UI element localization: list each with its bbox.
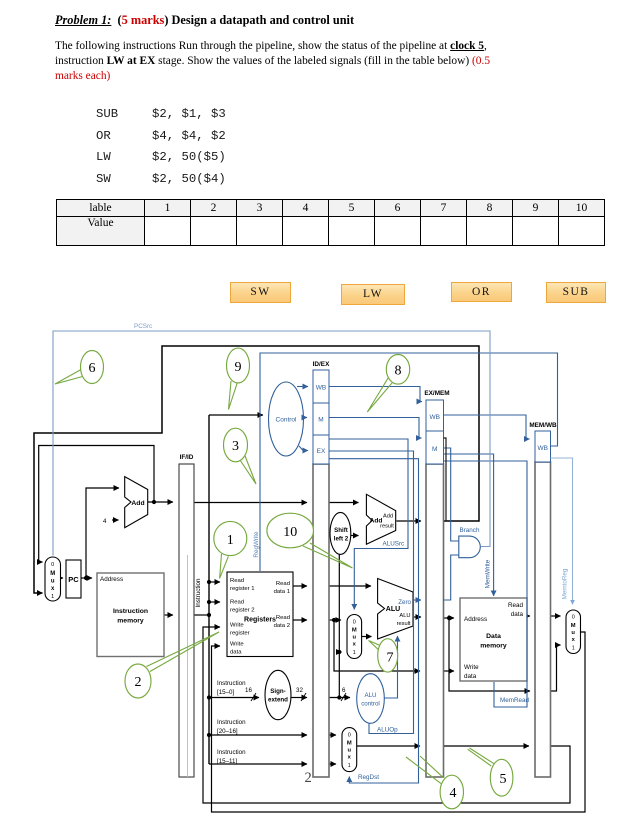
svg-text:5: 5 bbox=[500, 772, 507, 787]
bit-width slashes bbox=[251, 693, 346, 701]
wire PC+4 loop to PC mux input 0 bbox=[39, 446, 154, 563]
svg-text:ALU: ALU bbox=[386, 606, 400, 613]
svg-text:Instruction: Instruction bbox=[217, 749, 246, 756]
instruction tag LW bbox=[341, 284, 405, 305]
svg-text:u: u bbox=[353, 635, 357, 641]
wire write-back data to Registers Write data bbox=[212, 632, 586, 812]
svg-text:u: u bbox=[51, 579, 55, 585]
svg-text:EX: EX bbox=[317, 448, 326, 455]
svg-text:Instruction: Instruction bbox=[113, 608, 148, 615]
svg-text:3: 3 bbox=[232, 439, 239, 454]
svg-text:Add: Add bbox=[383, 514, 393, 520]
small numeric labels bbox=[103, 518, 346, 694]
wire MemRead control to data memory bbox=[444, 461, 528, 707]
svg-text:M: M bbox=[571, 623, 576, 629]
svg-text:Zero: Zero bbox=[398, 599, 411, 606]
callout 6 tail bbox=[55, 370, 83, 385]
wire RegWrite from MEM/WB to Registers bbox=[260, 353, 558, 571]
svg-text:memory: memory bbox=[117, 618, 144, 625]
svg-text:RegWrite: RegWrite bbox=[253, 531, 260, 558]
ID/EX pipeline register bbox=[313, 361, 330, 777]
svg-text:Read: Read bbox=[508, 602, 524, 609]
svg-text:data: data bbox=[511, 611, 524, 618]
wire Sign-extend output into ID/EX bbox=[291, 697, 307, 699]
wire ALU result bypass under Data memory into MEM/WB bbox=[449, 618, 530, 691]
wire PC+4 from ID/EX to branch Add bbox=[329, 502, 359, 504]
svg-text:PCSrc: PCSrc bbox=[134, 323, 152, 330]
svg-text:data 2: data 2 bbox=[274, 623, 290, 629]
junction dots bbox=[84, 500, 451, 737]
wire Zero flag into EX/MEM bbox=[413, 599, 421, 601]
svg-text:1: 1 bbox=[227, 533, 234, 548]
svg-text:8: 8 bbox=[395, 364, 402, 379]
wire instruction to Read register 2 bbox=[209, 601, 220, 603]
branch AND gate bbox=[459, 536, 481, 558]
wire instruction 15-0 to Sign-extend bbox=[209, 697, 259, 699]
svg-text:Read: Read bbox=[230, 578, 244, 584]
callout 1 bbox=[214, 521, 247, 555]
callout 9 bbox=[227, 348, 250, 383]
svg-text:Address: Address bbox=[464, 616, 487, 623]
svg-text:result: result bbox=[380, 524, 394, 530]
light blue labels bbox=[134, 323, 152, 330]
wire instruction memory output into IF/ID bbox=[164, 614, 173, 616]
svg-text:M: M bbox=[50, 571, 55, 577]
instruction memory bbox=[97, 573, 164, 657]
instruction field labels bbox=[217, 680, 246, 765]
paragraph bbox=[55, 39, 490, 84]
wire Read data 1 into ID/EX bbox=[293, 585, 307, 587]
svg-text:Write: Write bbox=[230, 642, 244, 648]
svg-text:WB: WB bbox=[537, 445, 547, 452]
wire Control to ID/EX WB bbox=[297, 386, 308, 388]
svg-text:9: 9 bbox=[235, 360, 242, 375]
svg-text:0: 0 bbox=[572, 615, 575, 621]
instruction listing bbox=[95, 106, 97, 108]
callout 7 tail bbox=[369, 641, 381, 652]
registers file bbox=[227, 572, 293, 657]
svg-text:Instruction: Instruction bbox=[195, 578, 202, 608]
shift left 2 bbox=[330, 512, 351, 554]
svg-text:[15–11]: [15–11] bbox=[217, 758, 237, 765]
MemtoReg mux bbox=[566, 610, 581, 654]
PC register bbox=[66, 560, 81, 598]
wire instruction 15-11 into ID/EX bbox=[209, 763, 307, 765]
callout 2 bbox=[125, 664, 151, 698]
wire MemtoReg from MEM/WB to mux select bbox=[551, 458, 573, 605]
svg-text:Write: Write bbox=[464, 664, 479, 671]
svg-text:0: 0 bbox=[51, 562, 54, 568]
wire Add result into EX/MEM bbox=[397, 520, 422, 522]
svg-text:Data: Data bbox=[486, 633, 501, 640]
blue signal labels bbox=[358, 527, 530, 781]
svg-text:1: 1 bbox=[51, 594, 54, 600]
svg-text:MEM/WB: MEM/WB bbox=[529, 422, 557, 429]
wire instruction to Control bbox=[209, 414, 263, 416]
svg-text:2: 2 bbox=[305, 770, 312, 786]
callout 1 tail bbox=[220, 554, 229, 578]
svg-text:ALU: ALU bbox=[364, 692, 376, 699]
callout 5 tail bbox=[468, 748, 494, 766]
wire immediate from ID/EX to ALU control bbox=[329, 697, 350, 699]
RegDst mux bbox=[342, 728, 357, 772]
svg-text:[20–16]: [20–16] bbox=[217, 728, 238, 735]
svg-text:data 1: data 1 bbox=[274, 589, 290, 595]
wire ALUSrc mux output to ALU bbox=[362, 636, 372, 638]
wire Read data into MEM/WB bbox=[527, 615, 530, 617]
green callouts bbox=[55, 370, 494, 784]
wire write register number back to Registers bbox=[203, 627, 570, 803]
svg-text:4: 4 bbox=[103, 518, 107, 525]
svg-text:RegDst: RegDst bbox=[358, 774, 379, 781]
wire RegDst mux output toward EX/MEM bbox=[357, 745, 420, 747]
svg-text:u: u bbox=[348, 748, 352, 754]
callout 7 bbox=[378, 639, 398, 672]
svg-text:result: result bbox=[397, 621, 411, 627]
wire write register number through MEM stage bbox=[444, 745, 530, 747]
svg-text:32: 32 bbox=[296, 687, 303, 694]
ALU control unit bbox=[357, 674, 385, 724]
callout 4 bbox=[440, 775, 463, 809]
wire Control to ID/EX M bbox=[304, 417, 308, 419]
svg-text:register: register bbox=[230, 631, 250, 637]
svg-text:PC: PC bbox=[68, 575, 79, 584]
svg-text:Write: Write bbox=[230, 623, 244, 629]
wire ALUOp control bbox=[329, 451, 414, 734]
svg-text:M: M bbox=[432, 446, 437, 453]
ALU bbox=[378, 579, 413, 640]
wire PC+4 from IF/ID into ID/EX bbox=[194, 502, 307, 504]
wire WB control ID/EX to EX/MEM bbox=[329, 387, 422, 402]
wire MemWrite control to data memory bbox=[444, 454, 494, 596]
wire immediate up to Shift left 2 bbox=[338, 555, 340, 698]
svg-text:0: 0 bbox=[353, 620, 356, 626]
wire M control ID/EX to EX/MEM bbox=[329, 418, 422, 439]
svg-text:register 2: register 2 bbox=[230, 608, 255, 614]
callout 4 tails bbox=[406, 756, 443, 784]
instruction tag OR bbox=[451, 282, 512, 302]
wire Branch control to AND gate bbox=[444, 448, 460, 541]
svg-text:Control: Control bbox=[276, 417, 298, 424]
svg-text:Add: Add bbox=[131, 500, 144, 507]
callout 9 tail bbox=[229, 381, 238, 410]
wire branch-target from EX/MEM back to PC mux input 1 bbox=[34, 346, 479, 593]
svg-text:ID/EX: ID/EX bbox=[313, 361, 330, 368]
svg-text:Registers: Registers bbox=[244, 617, 276, 624]
svg-text:EX/MEM: EX/MEM bbox=[424, 390, 449, 397]
svg-text:WB: WB bbox=[429, 414, 439, 421]
svg-text:WB: WB bbox=[316, 385, 326, 392]
wire Read data 1 to ALU input bbox=[329, 585, 371, 587]
wire RegDst control bbox=[329, 459, 419, 783]
ALUSrc mux bbox=[347, 615, 362, 659]
data memory bbox=[460, 598, 527, 681]
callout 6 bbox=[81, 351, 104, 384]
callout 10 tail bbox=[303, 543, 353, 568]
wire PC up to Add input bbox=[86, 488, 119, 578]
svg-text:Read: Read bbox=[276, 581, 290, 587]
svg-text:control: control bbox=[361, 701, 380, 708]
svg-text:u: u bbox=[571, 630, 575, 636]
wire instruction 15-11 to RegDst mux input 1 bbox=[329, 763, 336, 765]
callout 5 bbox=[490, 759, 513, 796]
callout 8 tail bbox=[367, 377, 393, 412]
svg-text:16: 16 bbox=[245, 687, 252, 694]
instruction tag SW bbox=[230, 282, 291, 303]
wire instruction 20-16 to RegDst mux input 0 bbox=[329, 734, 336, 736]
wire read data to MemtoReg mux input 0 bbox=[551, 615, 561, 617]
svg-text:6: 6 bbox=[89, 361, 96, 376]
svg-text:Read: Read bbox=[276, 615, 290, 621]
title line bbox=[55, 13, 354, 28]
wire constant 4 into Add bbox=[112, 519, 119, 521]
wire ALU control to ALU bbox=[384, 636, 397, 698]
svg-text:data: data bbox=[464, 673, 477, 680]
svg-text:M: M bbox=[352, 628, 357, 634]
svg-text:Branch: Branch bbox=[460, 527, 480, 534]
svg-text:ALUSrc: ALUSrc bbox=[383, 541, 405, 548]
signals table bbox=[56, 199, 605, 246]
svg-text:left 2: left 2 bbox=[334, 536, 349, 543]
wire write data row to Data memory bbox=[444, 670, 455, 672]
callout 2 tail bbox=[147, 632, 220, 672]
svg-text:Sign-: Sign- bbox=[270, 688, 285, 695]
wire instruction bus vertical bbox=[194, 614, 209, 616]
wire ALU result into EX/MEM bbox=[413, 616, 421, 618]
svg-text:register 1: register 1 bbox=[230, 586, 255, 592]
wire Read data 2 to ALUSrc mux input 0 bbox=[329, 619, 341, 621]
svg-text:MemtoReg: MemtoReg bbox=[562, 568, 569, 599]
svg-text:Shift: Shift bbox=[334, 527, 348, 534]
svg-text:2: 2 bbox=[135, 675, 142, 690]
svg-text:4: 4 bbox=[450, 786, 457, 801]
svg-text:extend: extend bbox=[268, 697, 288, 704]
svg-text:[15–0]: [15–0] bbox=[217, 689, 234, 696]
svg-text:10: 10 bbox=[283, 525, 297, 540]
wire mux to PC bbox=[61, 577, 64, 579]
svg-text:M: M bbox=[347, 741, 352, 747]
EX/MEM pipeline register bbox=[424, 390, 449, 777]
wire Zero flag to branch AND gate bbox=[444, 555, 460, 600]
wire instruction to Read register 1 bbox=[209, 581, 220, 583]
svg-text:memory: memory bbox=[480, 643, 507, 650]
wire Read data 2 into ID/EX bbox=[293, 619, 307, 621]
wire PC to instruction memory Address bbox=[81, 577, 92, 579]
control unit bbox=[269, 382, 304, 456]
svg-text:1: 1 bbox=[572, 646, 575, 652]
svg-text:ALUOp: ALUOp bbox=[377, 727, 398, 734]
callout 8 bbox=[386, 355, 409, 385]
svg-text:data: data bbox=[230, 650, 242, 656]
wire ALU result to MemtoReg mux input 1 bbox=[551, 645, 561, 691]
svg-text:1: 1 bbox=[353, 650, 356, 656]
PC+4 adder bbox=[125, 477, 148, 528]
wire PCSrc from AND gate to PC mux select bbox=[53, 331, 490, 556]
wire EX/MEM side branch line bbox=[444, 438, 447, 521]
wire WB control EX/MEM to MEM/WB bbox=[444, 415, 530, 439]
wire Control to ID/EX EX bbox=[299, 446, 308, 451]
wire ALUSrc control bbox=[329, 439, 408, 610]
callout 3 tail bbox=[239, 455, 256, 485]
wire instruction 20-16 into ID/EX bbox=[209, 734, 307, 736]
svg-text:Instruction: Instruction bbox=[217, 680, 246, 687]
wire Read data 2 down to EX/MEM write data bbox=[334, 620, 420, 671]
svg-text:6: 6 bbox=[342, 687, 346, 694]
svg-text:0: 0 bbox=[348, 733, 351, 739]
instruction tag SUB bbox=[546, 282, 606, 303]
svg-text:Address: Address bbox=[100, 576, 123, 583]
svg-text:IF/ID: IF/ID bbox=[180, 454, 194, 461]
branch target adder bbox=[366, 494, 395, 544]
svg-text:M: M bbox=[318, 417, 323, 424]
PC source mux bbox=[45, 557, 61, 601]
callout 3 bbox=[224, 428, 248, 462]
callout 10 bbox=[267, 513, 314, 548]
wire ALU result to Data memory Address bbox=[444, 617, 455, 619]
wire Add output into IF/ID bbox=[148, 501, 173, 503]
svg-text:MemWrite: MemWrite bbox=[485, 559, 492, 588]
svg-text:ALU: ALU bbox=[399, 613, 410, 619]
IF/ID pipeline register bbox=[179, 454, 194, 777]
MEM/WB pipeline register bbox=[529, 422, 557, 777]
wire immediate to ALUSrc mux input 1 bbox=[339, 651, 341, 653]
svg-text:MemRead: MemRead bbox=[500, 697, 530, 704]
sign extend bbox=[265, 670, 291, 719]
svg-text:Read: Read bbox=[230, 600, 244, 606]
svg-text:1: 1 bbox=[348, 763, 351, 769]
svg-text:7: 7 bbox=[387, 651, 394, 666]
wire Shift left 2 to branch Add bbox=[351, 535, 359, 537]
svg-text:Instruction: Instruction bbox=[217, 719, 246, 726]
